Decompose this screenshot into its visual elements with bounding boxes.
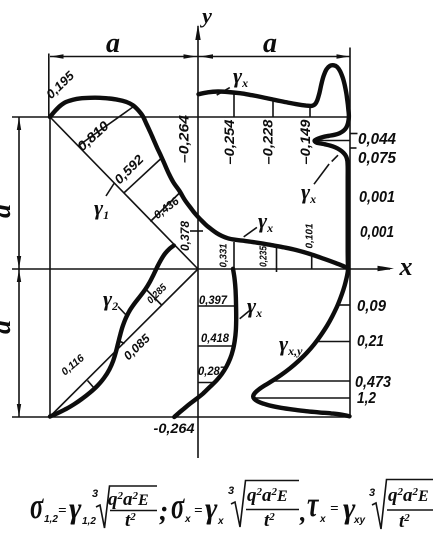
svg-text:σ: σ	[171, 485, 185, 526]
svg-text:γ: γ	[69, 492, 82, 525]
svg-text:q2a2E: q2a2E	[388, 485, 429, 506]
svg-text:a: a	[0, 204, 17, 218]
svg-text:0,075: 0,075	[358, 150, 397, 167]
svg-text:0,473: 0,473	[355, 374, 391, 391]
svg-text:;: ;	[159, 496, 168, 527]
svg-text:0,378: 0,378	[178, 221, 192, 251]
svg-text:q2a2E: q2a2E	[108, 489, 149, 510]
svg-text:x: x	[399, 252, 413, 281]
svg-text:1,2: 1,2	[82, 516, 96, 527]
svg-text:q2a2E: q2a2E	[247, 485, 288, 506]
svg-text:0,044: 0,044	[358, 131, 396, 148]
svg-text:1,2: 1,2	[357, 390, 376, 407]
svg-text:x: x	[217, 516, 224, 527]
svg-text:1,2: 1,2	[44, 514, 58, 525]
svg-text:a: a	[0, 320, 17, 334]
svg-text:=: =	[58, 503, 67, 519]
svg-text:–0,228: –0,228	[260, 119, 276, 164]
svg-text:0,09: 0,09	[357, 298, 386, 315]
svg-text:x: x	[319, 514, 326, 525]
svg-text:=: =	[194, 503, 203, 519]
svg-text:–0,254: –0,254	[221, 119, 237, 164]
svg-text:–0,264: –0,264	[176, 115, 192, 163]
svg-text:0,001: 0,001	[360, 224, 394, 241]
svg-text:0,001: 0,001	[359, 189, 395, 206]
svg-text:3: 3	[369, 487, 375, 499]
svg-text:=: =	[330, 501, 339, 517]
svg-text:x: x	[184, 514, 191, 525]
svg-text:0,287: 0,287	[198, 364, 227, 378]
svg-text:σ: σ	[30, 485, 44, 526]
svg-text:a: a	[106, 28, 120, 59]
svg-text:,: ,	[299, 498, 307, 527]
svg-text:0,21: 0,21	[357, 333, 384, 350]
svg-text:xy: xy	[353, 515, 366, 526]
svg-text:3: 3	[228, 485, 234, 497]
svg-text:0,101: 0,101	[304, 223, 316, 248]
svg-text:a: a	[263, 28, 277, 59]
svg-text:0,397: 0,397	[199, 293, 228, 307]
svg-text:τ: τ	[307, 484, 319, 524]
svg-text:3: 3	[92, 488, 98, 500]
svg-text:-0,264: -0,264	[154, 420, 195, 436]
svg-text:–0,149: –0,149	[297, 119, 313, 164]
svg-text:γ: γ	[205, 492, 218, 525]
svg-text:0,418: 0,418	[201, 331, 229, 345]
svg-text:0,235: 0,235	[259, 246, 270, 267]
svg-text:0,331: 0,331	[218, 243, 230, 267]
